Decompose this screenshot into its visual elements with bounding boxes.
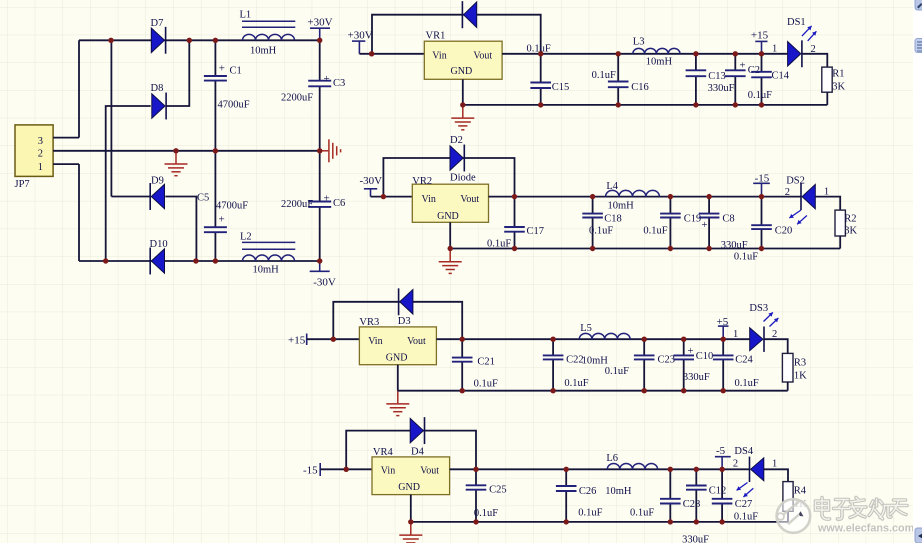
diode D9 [150,176,164,210]
power port -30V (row2 input) [360,175,383,197]
ui icon top-right 2 [915,39,922,53]
svg-text:-30V: -30V [313,277,336,289]
svg-text:D3: D3 [398,316,411,327]
wire row2 ground rail [450,248,840,250]
wire VR1 Vout rail [502,53,787,55]
svg-text:+: + [739,59,745,71]
inductor L6 10mH [605,453,657,519]
svg-text:Vout: Vout [473,50,492,61]
junction dots row3 bottom [460,388,726,393]
resistor R2 3K [835,210,857,236]
svg-text:+: + [219,214,225,226]
svg-text:C23: C23 [658,355,676,366]
wire D9 row segment [111,196,150,198]
power port -5 (row4) [715,445,731,469]
svg-text:DS2: DS2 [786,175,805,186]
svg-text:+30V: +30V [348,29,373,41]
resistor R4 1K [783,482,807,512]
ground (center rail right, rotated) [322,139,341,162]
wire VR4 Vout rail [450,468,750,470]
svg-text:C3: C3 [333,78,345,89]
wire protection loop row2 [383,158,514,197]
wire -15 to VR4 Vin [320,468,372,470]
svg-text:D7: D7 [151,18,164,29]
svg-text:+30V: +30V [307,17,332,29]
svg-text:+5: +5 [717,316,729,328]
wire VR1 GND stem [462,79,464,105]
svg-text:VR2: VR2 [412,176,432,187]
power port +15 (row1) [751,29,769,54]
svg-text:330uF: 330uF [721,240,748,251]
power port +15 (row3 input) [288,334,307,347]
watermark url www.elecfans.com [817,523,915,536]
svg-text:L2: L2 [240,232,252,243]
pin 1 label DS3 [733,329,738,340]
ui icon top-right 1 [915,0,922,10]
junction dots row2 bottom [448,246,765,251]
svg-text:+: + [701,219,707,231]
svg-text:10mH: 10mH [250,46,277,57]
svg-text:Vin: Vin [368,336,382,347]
wire VR2 GND stem [449,222,451,248]
wire VR3 Vout rail [436,338,749,340]
capacitor C3 2200uF [281,40,345,151]
svg-text:C16: C16 [631,82,649,93]
svg-text:VR1: VR1 [426,31,446,42]
wire VR2 Vout rail [489,196,802,198]
wire top rail [79,39,320,41]
regulator U VR2 [412,176,488,222]
connector JP7 [15,125,54,190]
capacitor C12 0.1uF [686,469,726,522]
pin 1 label DS4 [772,458,777,469]
svg-text:2: 2 [785,187,790,198]
svg-text:C25: C25 [489,484,507,495]
LED DS1 [787,17,816,67]
resistor R1 3K [822,67,846,92]
svg-text:D9: D9 [151,176,164,187]
power port -15 (row2) [753,172,770,196]
svg-text:0.1uF: 0.1uF [474,379,498,390]
wire center rail (pin2) [53,150,322,152]
pin 1 label DS2 [824,187,829,198]
junction dots top rail [108,38,322,43]
svg-text:C24: C24 [735,355,753,366]
capacitor C16 0.1uF [592,54,649,105]
svg-text:C13: C13 [708,71,726,82]
svg-text:+15: +15 [751,29,769,41]
diode D2 [450,135,476,183]
svg-text:C18: C18 [604,213,622,224]
wire bottom rail [79,260,320,262]
capacitor C1 4700uF [204,40,250,151]
capacitor C23 0.1uF [634,339,675,391]
svg-text:-15: -15 [303,464,318,476]
wire row3 ground rail [398,390,788,392]
svg-text:0.1uF: 0.1uF [592,70,616,81]
capacitor C18 0.1uF [582,197,621,249]
junction dots bottom rail [103,258,322,263]
svg-text:330uF: 330uF [708,83,735,94]
regulator U VR4 [372,447,450,494]
svg-text:+: + [324,193,330,205]
svg-text:0.1uF: 0.1uF [564,378,588,389]
svg-text:0.1uF: 0.1uF [578,508,602,519]
svg-text:C28: C28 [683,499,701,510]
right edge white strip [913,0,922,543]
svg-text:Vin: Vin [381,465,395,476]
svg-text:D4: D4 [411,446,425,457]
svg-text:C27: C27 [735,499,753,510]
svg-text:+15: +15 [288,334,306,346]
svg-text:-5: -5 [716,445,726,457]
svg-text:0.1uF: 0.1uF [605,366,629,377]
capacitor C26 0.1uF [556,469,603,522]
wire VR4 GND stem [410,495,412,522]
wire protection loop row4 [346,431,476,470]
svg-text:0.1uF: 0.1uF [630,508,654,519]
wire DS3 to R3 [764,339,788,353]
capacitor C24 0.1uF [713,339,759,391]
svg-text:10mH: 10mH [605,486,632,497]
svg-text:0.1uF: 0.1uF [748,90,772,101]
svg-text:D10: D10 [150,239,168,250]
capacitor C6 2200uF [281,151,345,261]
diode D1 (protection, row1) [462,1,476,28]
capacitor C15 0.1uF [527,44,570,105]
diode D4 [410,417,424,457]
svg-text:4700uF: 4700uF [218,100,250,111]
ground (VR2) [439,249,462,274]
wire R1 to ground rail [826,92,828,105]
junction dots row3 top [331,337,726,342]
svg-text:GND: GND [386,352,408,363]
LED DS4 [734,446,763,497]
svg-text:2200uF: 2200uF [281,199,313,210]
capacitor C20 0.1uF [734,197,792,263]
diode D7 [151,18,166,54]
svg-text:L5: L5 [580,323,592,334]
watermark text 电子发烧友 (stylized) [816,498,908,520]
watermark logo elecfans [777,499,811,533]
power port +30V (row1 input) [348,29,373,54]
svg-text:R3: R3 [794,357,806,368]
wire D8 cathode riser [166,40,190,106]
svg-text:2200uF: 2200uF [281,93,313,104]
inductor L4 10mH [606,181,660,211]
svg-text:L6: L6 [606,453,618,464]
svg-text:0.1uF: 0.1uF [734,512,758,523]
inductor L1 10mH [240,10,296,57]
junction dots row4 top [344,467,725,472]
wire R2 to ground rail [839,236,841,249]
capacitor C28 330uF [660,469,709,543]
capacitor C2 330uF [725,54,760,105]
inductor L3 10mH [633,36,680,67]
capacitor C19 0.1uF [643,197,701,249]
junction dots row4 bottom [408,519,725,524]
svg-text:C19: C19 [684,213,702,224]
power port +30V (rectifier output) [307,17,332,41]
junction dots row1 bottom [460,102,764,107]
svg-text:C14: C14 [772,71,790,82]
regulator U VR3 [359,317,436,364]
wire pin3 riser to top rail [78,40,80,137]
svg-text:R1: R1 [832,69,844,80]
svg-text:L3: L3 [633,36,645,47]
capacitor C14 0.1uF [748,54,790,105]
svg-text:D8: D8 [151,83,164,94]
svg-text:0.1uF: 0.1uF [735,378,759,389]
svg-text:C6: C6 [333,198,345,209]
svg-text:+: + [687,345,693,357]
power port -15 (row4 input) [303,463,320,476]
svg-text:Vout: Vout [420,465,439,476]
wire JP7 pin3 stub [53,137,79,139]
svg-text:Diode: Diode [450,172,476,183]
svg-text:+: + [324,73,330,85]
svg-text:C1: C1 [230,66,242,77]
pin 2 label DS2 [785,187,790,198]
svg-text:R2: R2 [844,214,856,225]
ground (VR1) [451,105,474,130]
svg-text:L4: L4 [606,181,618,192]
svg-text:10mH: 10mH [646,57,673,68]
diode D8 [151,83,167,119]
capacitor C27 0.1uF [712,469,758,522]
svg-text:-30V: -30V [360,175,383,187]
wire R4 to ground rail [787,511,789,522]
ground (VR4) [399,522,422,543]
wire +30V to VR1 Vin [359,53,424,55]
capacitor C5 4700uF [197,151,248,261]
svg-text:3: 3 [38,136,43,147]
wire +15 to VR3 Vin [307,338,360,340]
svg-text:1: 1 [38,162,43,173]
diode D3 [398,288,413,327]
svg-text:GND: GND [437,211,459,222]
svg-text:1: 1 [772,44,777,55]
pin 1 label DS1 [772,44,777,55]
capacitor C22 0.1uF [543,339,589,391]
svg-text:C20: C20 [775,225,793,236]
svg-text:D2: D2 [450,135,463,146]
wire D8 row segment [106,106,151,261]
svg-text:Vout: Vout [407,336,426,347]
svg-text:0.1uF: 0.1uF [487,239,511,250]
pin 2 label DS1 [811,44,816,55]
wire DS4 to R4 [764,469,788,481]
svg-text:JP7: JP7 [15,179,30,190]
svg-text:3K: 3K [832,82,845,93]
junction dots center rail [173,148,322,153]
junction dots row2 top [381,194,765,199]
svg-text:1: 1 [733,329,738,340]
svg-text:C10: C10 [696,351,714,362]
svg-text:Vin: Vin [422,194,436,205]
svg-text:10mH: 10mH [608,201,635,212]
svg-text:330uF: 330uF [682,535,709,543]
svg-text:GND: GND [451,66,473,77]
inductor L5 10mH [579,323,630,377]
svg-text:1: 1 [772,458,777,469]
svg-text:DS1: DS1 [787,17,806,28]
svg-text:+: + [219,63,225,75]
svg-text:www.elecfans.com: www.elecfans.com [817,523,914,535]
svg-text:1K: 1K [794,370,807,381]
svg-text:0.1uF: 0.1uF [589,225,613,236]
capacitor C25 0.1uF [466,469,507,522]
svg-text:GND: GND [398,482,420,493]
inductor L2 10mH [240,232,295,276]
wire protection loop row3 [333,302,462,339]
power port -30V (rectifier output) [310,261,336,289]
wire row4 ground rail [411,521,788,523]
ground (VR3) [386,391,409,416]
svg-text:L1: L1 [240,10,252,21]
wire pin1 drop to bottom rail [78,164,80,261]
LED DS2 [786,175,815,224]
wire row1 ground rail [463,104,828,106]
svg-text:DS4: DS4 [734,446,753,457]
pin 2 label DS3 [772,329,777,340]
wire R3 to ground rail [787,382,789,391]
wire D9 to C5 corner [165,197,196,262]
diode D10 [150,239,168,274]
resistor R3 1K [782,353,807,382]
wire DS2 to R2 [815,197,840,211]
svg-text:0.1uF: 0.1uF [643,225,667,236]
svg-text:10mH: 10mH [253,265,280,276]
svg-text:C5: C5 [197,193,209,204]
svg-text:C17: C17 [527,226,545,237]
svg-text:0.1uF: 0.1uF [734,252,758,263]
svg-text:Vin: Vin [432,50,446,61]
svg-text:C21: C21 [477,356,495,367]
svg-text:C26: C26 [579,486,597,497]
svg-text:C12: C12 [709,485,727,496]
svg-text:C2: C2 [748,65,760,76]
svg-text:C15: C15 [552,82,570,93]
capacitor C8 330uF [699,197,748,252]
wire DS1 to R1 [802,54,827,67]
svg-text:Vout: Vout [460,194,479,205]
svg-text:4700uF: 4700uF [216,200,248,211]
capacitor C13 330uF [686,54,735,105]
svg-text:2: 2 [38,149,43,160]
junction dots row1 top [369,51,764,56]
wire VR3 GND stem [397,365,399,391]
svg-text:2: 2 [733,459,738,470]
wire protection loop row1 [372,15,541,54]
ground (center rail left) [165,151,188,176]
pin 2 label DS4 [733,459,738,470]
capacitor C21 0.1uF [452,339,498,391]
svg-text:R4: R4 [794,486,807,497]
svg-text:DS3: DS3 [749,303,768,314]
wire -30V to VR2 Vin [371,196,413,198]
wire D7 anode branch down to D9 row [110,40,112,196]
capacitor C10 330uF [673,339,713,391]
power port +5 (row3) [717,316,729,339]
ui icon bottom-right [915,528,922,543]
svg-text:330uF: 330uF [683,372,710,383]
svg-text:VR4: VR4 [373,447,394,458]
svg-text:3K: 3K [844,225,857,236]
svg-text:0.1uF: 0.1uF [474,508,498,519]
wire JP7 pin1 stub [53,163,79,165]
LED DS3 [749,303,778,352]
svg-text:C8: C8 [722,213,734,224]
svg-text:VR3: VR3 [359,317,379,328]
capacitor C17 0.1uF [487,197,544,250]
svg-text:-15: -15 [755,172,770,184]
regulator U VR1 [424,31,502,80]
